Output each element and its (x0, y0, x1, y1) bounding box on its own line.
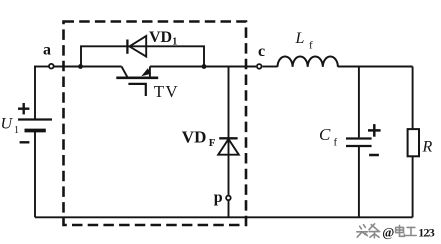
svg-text:TV: TV (154, 82, 179, 101)
svg-text:U: U (1, 115, 14, 132)
svg-text:F: F (209, 137, 216, 149)
svg-text:c: c (258, 43, 265, 60)
svg-text:p: p (214, 189, 223, 206)
svg-text:L: L (295, 30, 305, 47)
svg-text:f: f (309, 39, 313, 51)
svg-text:f: f (334, 136, 338, 148)
svg-text:123: 123 (418, 225, 435, 239)
svg-text:1: 1 (172, 36, 177, 47)
svg-text:R: R (422, 139, 433, 156)
svg-text:VD: VD (149, 29, 172, 46)
svg-text:C: C (319, 125, 331, 144)
svg-text:a: a (43, 42, 51, 59)
svg-text:@: @ (382, 224, 394, 239)
svg-text:1: 1 (14, 125, 19, 136)
svg-text:VD: VD (182, 128, 207, 147)
